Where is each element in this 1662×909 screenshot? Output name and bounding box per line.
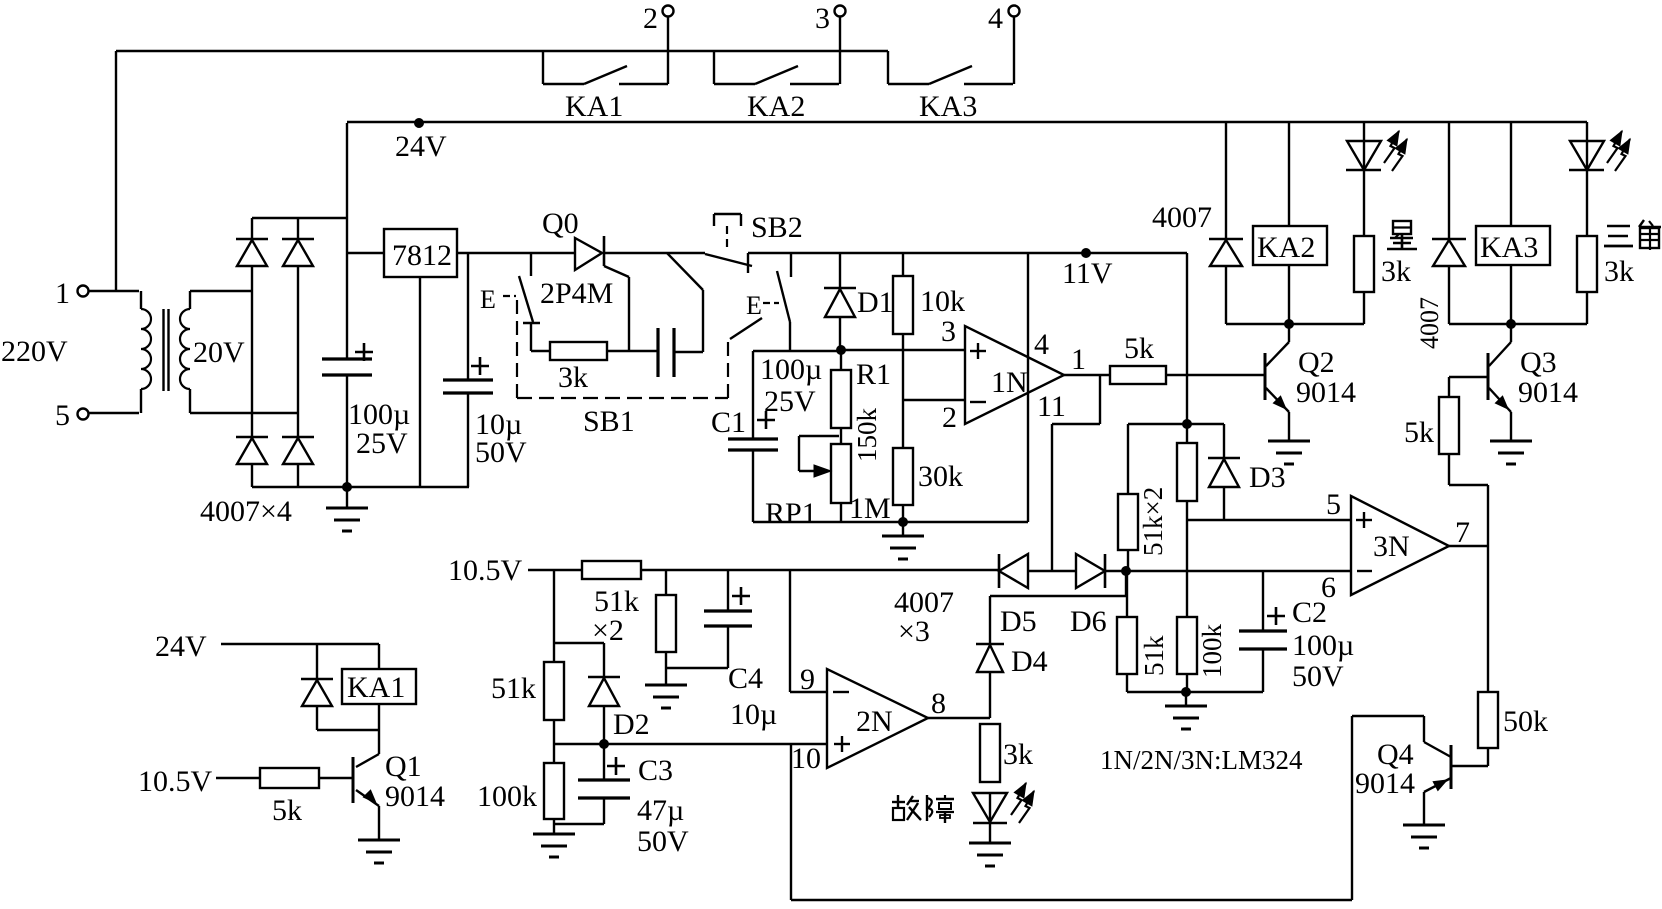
svg-text:10k: 10k [920,285,965,318]
ground (C4 filter) [665,668,667,685]
svg-text:KA2: KA2 [1257,231,1315,264]
svg-text:D3: D3 [1249,461,1286,494]
resistor 3k (SB1 gate) [531,350,550,352]
capacitor C4 10u [727,570,729,611]
svg-text:50k: 50k [1503,705,1548,738]
svg-text:KA1: KA1 [565,90,623,123]
SB1 linkage dashed box [516,300,518,398]
relay contact KA1 [542,51,544,84]
ground (left divider) [553,824,555,834]
pin 4 / 11 supply wire [1027,253,1029,522]
wire C1 top node [753,350,841,352]
terminal 4 [1009,6,1020,17]
svg-text:3k: 3k [558,361,588,394]
resistor 5k (Q3 base) [1439,397,1459,454]
resistor 3k (star LED) [1354,236,1374,292]
wire rectifier output vertical [346,123,348,359]
svg-text:6: 6 [1321,571,1336,604]
LED delta indicator [1586,122,1588,170]
wire pin7 node [1487,485,1489,546]
svg-text:100µ: 100µ [760,353,822,386]
resistor 51k (vertical, filter) [665,570,667,595]
resistor 3k (fault LED) [980,724,1000,782]
wire snubber branch to rail [667,253,703,290]
capacitor C3 47u/50V [603,744,605,780]
wire 24V rail [347,121,1587,123]
svg-text:10.5V: 10.5V [138,765,213,798]
svg-text:51k×2: 51k×2 [1138,487,1168,556]
svg-text:9014: 9014 [385,780,445,813]
svg-text:2: 2 [942,401,957,434]
svg-text:SB2: SB2 [751,211,803,244]
wire ground node [1127,691,1263,693]
svg-text:Q2: Q2 [1298,346,1335,379]
svg-text:51k: 51k [491,672,536,705]
svg-text:KA1: KA1 [347,671,405,704]
wire 11V to node X [1186,253,1188,443]
bridge rectifier diodes 4007x4 [252,217,347,219]
svg-text:9014: 9014 [1296,376,1356,409]
svg-text:D6: D6 [1070,605,1107,638]
wire 7812 input [347,252,384,254]
wire gate node [607,350,658,352]
resistor 100k [1177,617,1197,674]
ground (Q1) [378,839,380,841]
diode D4 [976,643,1004,646]
capacitor (SB1 snubber) [656,328,659,377]
svg-text:5k: 5k [1404,416,1434,449]
terminal 1 [78,286,89,297]
diode 4007 (KA2 freewheel) [1225,122,1227,239]
terminal 5 [78,409,89,420]
pin 10 wire [554,743,827,745]
capacitor C2 100u/50V [1262,571,1264,631]
svg-text:9014: 9014 [1518,376,1578,409]
svg-text:×3: ×3 [898,615,930,648]
svg-text:4007×4: 4007×4 [200,495,292,528]
svg-text:50V: 50V [475,436,527,469]
svg-text:KA3: KA3 [1480,231,1538,264]
ground (comparator) [1181,687,1191,697]
svg-text:1N: 1N [991,366,1028,399]
capacitor 100u/25V [322,357,372,360]
wire 1N ground rail [753,521,1028,523]
svg-text:100k: 100k [477,780,537,813]
svg-text:Q0: Q0 [542,207,579,240]
pin 2 wire [903,399,965,401]
pushbutton SB1 NC contact [530,253,532,276]
svg-text:220V: 220V [1,335,68,368]
pin 5 wire [1187,519,1351,521]
wire output to D5/D6 node [1099,375,1101,424]
svg-text:D4: D4 [1011,645,1048,678]
svg-text:10: 10 [791,742,821,775]
svg-text:4: 4 [1034,328,1049,361]
pushbutton SB2 NO contact [705,254,752,266]
resistor 3k (delta LED) [1577,236,1597,292]
transistor Q2 9014 [1288,324,1290,342]
op-amp 3N [1351,496,1449,595]
pushbutton SB2 NC contact [790,253,792,277]
ground (divider) [898,517,908,527]
wire pin5 node down to 100k [1186,520,1188,617]
node C1/R1 [836,345,846,355]
resistor 100k (left divider) [553,744,555,763]
wire 5k to Q2 base [1166,374,1265,376]
relay contact KA3 [887,51,889,84]
wire top bus from terminal 1 [116,50,888,52]
wire bridge bottom / ground rail [252,486,469,488]
relay coil KA2 [1288,122,1290,226]
svg-text:D2: D2 [613,708,650,741]
wire 10.5V rail [528,569,582,571]
svg-text:3k: 3k [1381,255,1411,288]
svg-text:RP1: RP1 [765,497,817,530]
transistor Q4 9014 [1452,765,1488,767]
svg-text:20V: 20V [193,336,245,369]
svg-text:1M: 1M [849,492,891,525]
ground (Q3) [1510,440,1512,442]
svg-text:8: 8 [931,687,946,720]
svg-text:11V: 11V [1062,257,1113,290]
svg-text:SB1: SB1 [583,405,635,438]
wire Q3 base [1449,376,1488,378]
svg-text:KA3: KA3 [919,90,977,123]
label star (Chinese) [1387,221,1417,249]
wire secondary bottom [190,412,298,414]
svg-text:7: 7 [1455,516,1470,549]
wire D4 branch [1125,571,1127,596]
ground (Q2) [1288,440,1290,442]
svg-text:2P4M: 2P4M [540,277,613,310]
svg-text:R1: R1 [856,358,891,391]
svg-text:E: E [746,291,762,320]
pin 7 output wire [1449,545,1488,547]
svg-text:KA2: KA2 [747,90,805,123]
node pin6 rail [1121,566,1131,576]
wire Q1 base [319,777,353,779]
svg-text:C3: C3 [638,754,673,787]
relay coil KA3 [1510,122,1512,226]
svg-text:51k: 51k [1139,635,1169,676]
resistor 30k [902,400,904,448]
svg-text:D5: D5 [1000,605,1037,638]
diode 4007 (KA1 freewheel) [316,644,318,679]
svg-text:10.5V: 10.5V [448,554,523,587]
svg-text:50V: 50V [637,825,689,858]
svg-text:4007: 4007 [1152,201,1212,234]
svg-text:3N: 3N [1373,530,1410,563]
resistor R1 150k [840,350,842,370]
resistor 50k [1487,546,1489,692]
svg-text:1: 1 [55,277,70,310]
svg-text:3: 3 [941,315,956,348]
resistor 5k (Q2 base) [1110,366,1166,384]
capacitor C1 100u/25V [752,351,754,439]
wire rail to D5 [641,569,999,571]
svg-text:150k: 150k [852,408,882,463]
pin 1 output wire [1064,374,1110,376]
svg-text:Q1: Q1 [385,750,422,783]
node Q2 collector [1284,319,1294,329]
pin 9 wire [789,570,791,692]
wire KA2 branch bottom rail [1226,323,1364,325]
svg-text:25V: 25V [356,427,408,460]
wire feedback 2N+ to Q4 collector [790,744,792,900]
LED fault [973,793,1007,822]
regulator U 7812 [384,229,457,277]
LED star indicator [1363,122,1365,170]
node 24V [414,118,424,128]
svg-text:5: 5 [55,399,70,432]
svg-text:E: E [480,285,496,314]
svg-text:1: 1 [1071,343,1086,376]
label fault (Chinese) [892,795,954,823]
diode D6 [1076,554,1105,588]
terminal 2 [663,6,674,17]
thyristor Q0 2P4M [575,238,602,270]
diode D3 [1187,423,1224,425]
zener D1 [839,253,841,288]
wire D5/D6 anodes [1028,570,1076,572]
resistor 51k (left divider) [553,643,555,662]
transistor Q1 9014 [356,754,379,767]
svg-text:50V: 50V [1292,660,1344,693]
transformer T 220V/20V [141,309,151,389]
svg-text:100µ: 100µ [1292,629,1354,662]
svg-text:10µ: 10µ [730,698,777,731]
label delta (Chinese 三角) [1604,220,1661,250]
svg-text:5k: 5k [272,794,302,827]
pin 8 output wire [928,717,990,719]
svg-text:Q3: Q3 [1520,346,1557,379]
ground (Q4) [1423,824,1425,826]
svg-text:9014: 9014 [1355,767,1415,800]
svg-text:C4: C4 [728,662,763,695]
svg-text:5: 5 [1326,488,1341,521]
svg-text:C1: C1 [711,406,746,439]
wire KA1 to Q1 collector [378,730,380,754]
diode 4007 (KA3 freewheel) [1448,122,1450,239]
capacitor 10u/50V [467,253,469,380]
resistor 5k (Q1 base) [260,768,319,788]
transistor Q3 9014 [1510,324,1512,342]
svg-text:4007: 4007 [1415,297,1444,349]
ground (main filter) [342,482,352,492]
wire 10.5V branch down [553,570,555,643]
op-amp 2N [827,669,928,768]
svg-text:7812: 7812 [392,239,452,272]
svg-text:11: 11 [1037,390,1066,423]
node D2/C3 [599,739,609,749]
svg-text:2: 2 [643,2,658,35]
ground (fault LED) [989,842,991,844]
svg-text:3k: 3k [1604,255,1634,288]
op-amp 1N [965,326,1064,424]
svg-text:4: 4 [988,2,1003,35]
svg-text:D1: D1 [857,286,894,319]
resistor 51k (series, of 51kx2) [582,561,641,579]
node Q3 collector [1506,319,1516,329]
svg-text:3k: 3k [1003,738,1033,771]
potentiometer RP1 1M [831,444,851,503]
svg-text:9: 9 [800,663,815,696]
svg-text:30k: 30k [918,460,963,493]
svg-text:100k: 100k [1197,624,1227,679]
diode D5 [998,554,1001,588]
resistor 10k [902,253,904,276]
relay contact KA2 [713,51,715,84]
svg-text:25V: 25V [764,385,816,418]
resistor 51k (to ground) [1126,571,1128,617]
terminal 3 [835,6,846,17]
svg-text:3: 3 [815,2,830,35]
pin 3 wire [841,349,965,351]
wire KA3 branch bottom rail [1449,323,1587,325]
svg-text:1N/2N/3N:LM324: 1N/2N/3N:LM324 [1100,745,1303,775]
relay coil KA1 [378,644,380,669]
resistor 51k (upper of 51kx2) [1177,443,1197,501]
node 11V [1081,248,1091,258]
svg-text:5k: 5k [1124,332,1154,365]
svg-text:24V: 24V [395,130,447,163]
diode D2 [603,643,605,677]
node X junction [1182,419,1192,429]
resistor 51k (lower of 51kx2) [1128,423,1187,425]
wire pin6 rail [1105,570,1351,572]
wire secondary top [190,290,252,292]
svg-text:2N: 2N [856,705,893,738]
svg-text:24V: 24V [155,630,207,663]
svg-text:47µ: 47µ [637,794,684,827]
wire 12V rail [457,252,575,254]
wire 7812 ground pin [419,277,421,487]
